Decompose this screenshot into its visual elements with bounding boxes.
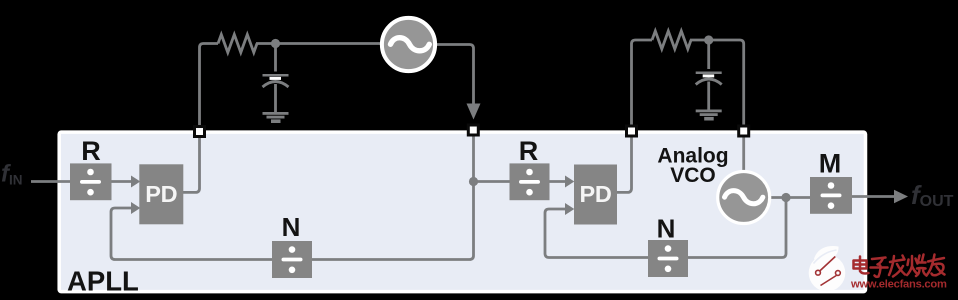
wire resistor2 to terminal T4 xyxy=(690,40,744,125)
svg-text:PD: PD xyxy=(579,181,611,207)
svg-text:PD: PD xyxy=(145,181,177,207)
svg-text:www.elecfans.com: www.elecfans.com xyxy=(850,279,947,291)
wire junction J2 to R2 xyxy=(474,180,511,183)
junction dot J1 xyxy=(271,39,280,48)
char zi xyxy=(871,258,888,277)
wire junction J4 down to N2 xyxy=(688,198,786,258)
arrowhead into PD1 input 2 xyxy=(131,202,140,214)
wire terminal T1 up to loop filter xyxy=(200,44,219,132)
watermark text dianzifashaoyou xyxy=(854,255,945,277)
APLL box xyxy=(59,132,865,292)
svg-text:N: N xyxy=(282,212,301,242)
wire M output to fOUT xyxy=(852,195,895,198)
wire PD1 output up to terminal T1 xyxy=(183,125,200,192)
terminal T3 xyxy=(627,126,637,136)
wire R2 to PD2 xyxy=(550,180,567,183)
wire terminal T2 down to junction and N1 xyxy=(312,135,474,260)
resistor R loop filter 2 xyxy=(652,31,691,49)
watermark logo elecfans xyxy=(809,246,846,291)
svg-text:VCO: VCO xyxy=(670,164,716,187)
wire terminal T3 up to loop filter 2 xyxy=(632,40,653,131)
wire PD2 output up to terminal T3 xyxy=(617,125,632,192)
wire capacitor C2 branch xyxy=(707,40,710,110)
terminal T4 xyxy=(739,126,749,136)
wire capacitor C1 branch xyxy=(274,44,277,113)
capacitor C1 plates xyxy=(263,74,289,87)
svg-text:M: M xyxy=(819,149,842,179)
wire VCO1 to down arrow xyxy=(437,45,474,105)
svg-text:R: R xyxy=(519,136,539,166)
char fa xyxy=(889,256,905,277)
ground GND1 xyxy=(263,112,289,123)
terminal T1 xyxy=(195,127,205,137)
svg-text:APLL: APLL xyxy=(67,266,139,297)
arrowhead down into terminal T2 xyxy=(467,104,481,120)
char dian xyxy=(854,257,869,274)
arrowhead into PD1 input 1 xyxy=(131,176,140,188)
divider N2 xyxy=(648,240,688,277)
junction dot J2 xyxy=(469,177,478,186)
ground GND2 xyxy=(696,110,722,121)
terminal T2 xyxy=(468,125,478,135)
phase detector PD1 xyxy=(139,164,183,224)
wire R1 to PD1 xyxy=(111,180,132,183)
arrowhead into PD2 input 2 xyxy=(565,203,574,215)
VCO2 analog VCO symbol xyxy=(718,172,770,224)
resistor R loop filter 1 xyxy=(218,35,257,53)
wire resistor1 to VCO1 xyxy=(256,42,381,45)
divider R1 xyxy=(70,163,112,200)
divider N1 xyxy=(272,241,312,278)
char you xyxy=(927,255,945,276)
junction dot J4 xyxy=(781,193,790,202)
wire fIN input xyxy=(31,180,70,183)
svg-text:N: N xyxy=(657,214,676,244)
arrowhead fOUT xyxy=(894,190,908,203)
wire N1 feedback to PD1 xyxy=(111,208,272,260)
arrowhead into PD2 input 1 xyxy=(565,176,574,188)
VCO1 oscillator symbol xyxy=(382,18,435,71)
svg-text:R: R xyxy=(81,136,101,166)
junction dot J3 xyxy=(704,35,713,44)
wire terminal T4 down to VCO2 xyxy=(742,135,745,172)
wire VCO2 output to divider M xyxy=(768,196,810,199)
capacitor C2 plates xyxy=(696,72,722,85)
char shao xyxy=(907,255,927,277)
divider R2 xyxy=(510,163,550,200)
wire N2 feedback to PD2 xyxy=(545,209,648,258)
divider M xyxy=(810,177,852,214)
phase detector PD2 xyxy=(574,165,617,225)
